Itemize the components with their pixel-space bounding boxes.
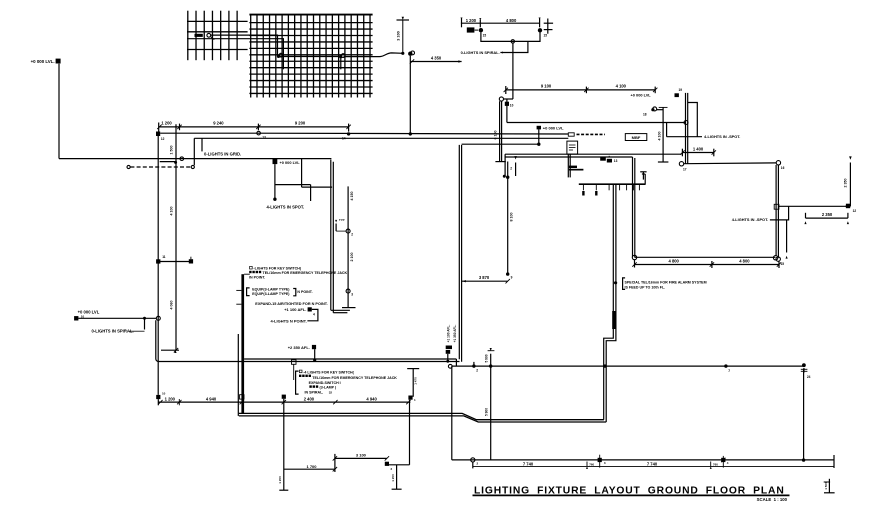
svg-text:12: 12 bbox=[161, 137, 165, 141]
svg-text:2 400: 2 400 bbox=[304, 396, 315, 401]
svg-text:EQUIP(3-LAMP TYPE): EQUIP(3-LAMP TYPE) bbox=[252, 292, 290, 296]
svg-text:10: 10 bbox=[81, 314, 85, 318]
svg-text:IN POINT.: IN POINT. bbox=[249, 275, 265, 279]
svg-text:0-LIGHTS IN SPIRAL.: 0-LIGHTS IN SPIRAL. bbox=[92, 329, 134, 334]
svg-text:10: 10 bbox=[510, 104, 514, 108]
svg-text:18: 18 bbox=[643, 113, 647, 117]
svg-text:4 150: 4 150 bbox=[350, 192, 354, 201]
svg-text:4-LIGHTS N POINT.: 4-LIGHTS N POINT. bbox=[271, 318, 307, 323]
svg-text:15: 15 bbox=[483, 34, 487, 38]
svg-text:7: 7 bbox=[728, 369, 730, 373]
svg-text:4 800: 4 800 bbox=[506, 18, 517, 23]
svg-text:11: 11 bbox=[162, 255, 166, 259]
svg-text:EXPAND-SWITCH I: EXPAND-SWITCH I bbox=[309, 381, 341, 385]
svg-text:4 100: 4 100 bbox=[658, 132, 662, 141]
svg-text:3: 3 bbox=[351, 292, 353, 296]
svg-text:3 100: 3 100 bbox=[397, 31, 401, 41]
svg-text:IS FEED UP TO 10th FL.: IS FEED UP TO 10th FL. bbox=[625, 285, 666, 289]
svg-text:1 700: 1 700 bbox=[306, 464, 317, 469]
svg-text:4 800: 4 800 bbox=[739, 258, 750, 263]
svg-text:N POINT.: N POINT. bbox=[297, 290, 312, 294]
svg-text:13: 13 bbox=[614, 159, 618, 163]
svg-text:12: 12 bbox=[853, 209, 857, 213]
svg-text:8 100: 8 100 bbox=[509, 213, 513, 222]
svg-text:+0 000 LVL: +0 000 LVL bbox=[280, 160, 301, 165]
svg-text:4 940: 4 940 bbox=[206, 396, 217, 401]
svg-text:4 350: 4 350 bbox=[431, 55, 442, 60]
svg-text:4-LIGHTS IN SPOT.: 4-LIGHTS IN SPOT. bbox=[267, 205, 305, 210]
svg-text:1 500: 1 500 bbox=[824, 482, 828, 490]
svg-text:2: 2 bbox=[351, 232, 353, 236]
svg-text:4 100: 4 100 bbox=[169, 207, 173, 216]
svg-text:SPECIAL TEL/16mm FOR FIRE ALAR: SPECIAL TEL/16mm FOR FIRE ALARM SYSTEM bbox=[625, 281, 707, 285]
svg-text:4-LIGHTS IN -SPOT.: 4-LIGHTS IN -SPOT. bbox=[704, 134, 740, 139]
svg-text:1 470: 1 470 bbox=[414, 377, 418, 385]
svg-text:+2 350 AFL.: +2 350 AFL. bbox=[288, 345, 310, 350]
svg-text:7 740: 7 740 bbox=[647, 461, 658, 466]
svg-text:15: 15 bbox=[544, 34, 548, 38]
svg-text:TEL/16mm FOR EMERGENCY TELEPHO: TEL/16mm FOR EMERGENCY TELEPHONE JACK bbox=[312, 376, 397, 380]
svg-text:2: 2 bbox=[510, 167, 512, 171]
svg-text:4 800: 4 800 bbox=[669, 258, 680, 263]
svg-text:SCALE 1 : 100: SCALE 1 : 100 bbox=[757, 497, 788, 502]
svg-text:TYP: TYP bbox=[339, 218, 345, 222]
svg-text:4: 4 bbox=[313, 313, 315, 317]
svg-text:+1 100 AFL.: +1 100 AFL. bbox=[447, 325, 451, 343]
svg-text:1 200: 1 200 bbox=[165, 396, 176, 401]
svg-text:1 200: 1 200 bbox=[466, 18, 477, 23]
svg-text:(3-LAMP ): (3-LAMP ) bbox=[320, 386, 338, 390]
svg-text:2: 2 bbox=[476, 369, 478, 373]
svg-text:7 740: 7 740 bbox=[523, 461, 534, 466]
svg-text:16: 16 bbox=[781, 166, 785, 170]
svg-text:3 870: 3 870 bbox=[479, 275, 490, 280]
svg-text:0-LIGHTS IN SPIRAL.: 0-LIGHTS IN SPIRAL. bbox=[461, 50, 500, 55]
svg-text:6 100: 6 100 bbox=[494, 131, 498, 140]
svg-text:17: 17 bbox=[683, 168, 687, 172]
svg-text:9 240: 9 240 bbox=[213, 121, 224, 126]
svg-text:1 400: 1 400 bbox=[693, 146, 704, 151]
svg-text:IN SPIRAL.: IN SPIRAL. bbox=[305, 391, 324, 395]
svg-text:-4 LIGHTS FOR KEY SWITCH(: -4 LIGHTS FOR KEY SWITCH( bbox=[303, 370, 354, 374]
svg-text:1 200: 1 200 bbox=[161, 121, 172, 126]
svg-text:EXPAND-15 AIR/TIGHTED FOR N PO: EXPAND-15 AIR/TIGHTED FOR N POINT. bbox=[255, 302, 327, 306]
svg-text:4 100: 4 100 bbox=[616, 84, 627, 89]
svg-text:5 900: 5 900 bbox=[484, 408, 488, 416]
svg-text:+0 000 LVL: +0 000 LVL bbox=[543, 125, 564, 130]
svg-text:1 200: 1 200 bbox=[278, 476, 282, 484]
svg-text:9 200: 9 200 bbox=[295, 121, 306, 126]
svg-text:2 350: 2 350 bbox=[822, 212, 833, 217]
svg-text:TEL/16mm FOR EMERGENCY TELEPHO: TEL/16mm FOR EMERGENCY TELEPHONE JACK bbox=[263, 271, 348, 275]
svg-text:9 100: 9 100 bbox=[541, 84, 552, 89]
svg-text:5 900: 5 900 bbox=[484, 354, 488, 362]
svg-text:2 350: 2 350 bbox=[844, 179, 848, 188]
svg-text:+0 000 LVL.: +0 000 LVL. bbox=[31, 59, 55, 64]
svg-text:MBF: MBF bbox=[632, 135, 641, 140]
svg-text:24: 24 bbox=[807, 375, 811, 379]
svg-text:+0 000 LVL: +0 000 LVL bbox=[631, 93, 652, 98]
svg-text:19: 19 bbox=[679, 88, 683, 92]
svg-text:0-LIGHTS IN GRID.: 0-LIGHTS IN GRID. bbox=[204, 152, 241, 157]
svg-text:4 060: 4 060 bbox=[169, 301, 173, 310]
svg-text:+1 100 AFL.: +1 100 AFL. bbox=[284, 307, 306, 312]
svg-text:4 940: 4 940 bbox=[366, 396, 377, 401]
svg-text:2 100: 2 100 bbox=[350, 253, 354, 262]
svg-text:3 100: 3 100 bbox=[356, 452, 367, 457]
svg-text:4-LIGHTS IN -SPOT.: 4-LIGHTS IN -SPOT. bbox=[732, 217, 768, 222]
svg-text:1 200: 1 200 bbox=[391, 474, 395, 482]
svg-text:1 500: 1 500 bbox=[169, 146, 173, 155]
svg-text:9: 9 bbox=[511, 276, 513, 280]
svg-text:10: 10 bbox=[162, 391, 166, 395]
svg-text:760: 760 bbox=[589, 462, 594, 466]
svg-text:32: 32 bbox=[329, 391, 333, 395]
svg-text:+1 350 AFL.: +1 350 AFL. bbox=[453, 325, 457, 343]
svg-text:760: 760 bbox=[713, 462, 718, 466]
